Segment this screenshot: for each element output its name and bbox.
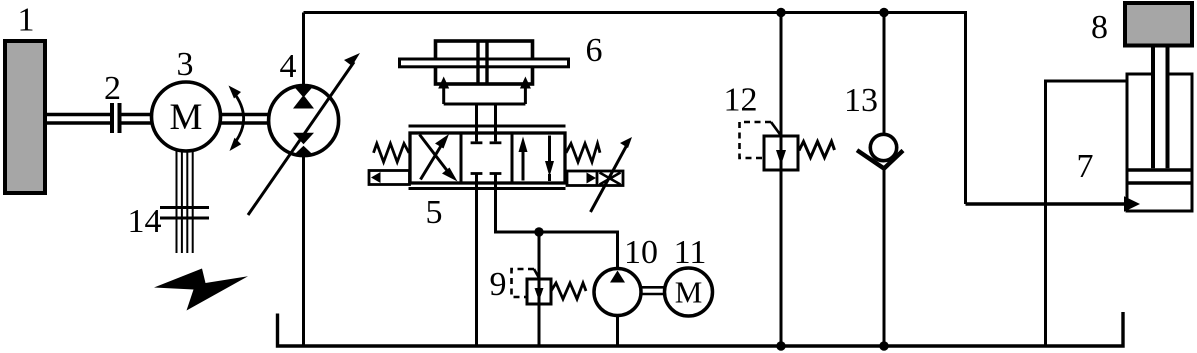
valve 5 body: [410, 133, 565, 183]
feed line to work cylinder: [966, 202, 1126, 206]
relief valve 12 spring: [799, 142, 835, 158]
svg-text:8: 8: [1091, 9, 1108, 46]
flow arrows into cylinder 6: [438, 77, 531, 105]
relief valve 12 box: [764, 136, 798, 170]
valve 5 left solenoid box: [369, 171, 410, 185]
valve 5 middle square blocked ports: [471, 143, 502, 174]
svg-text:M: M: [170, 97, 203, 138]
svg-text:10: 10: [624, 234, 658, 271]
pump 4 line to tank rail: [302, 156, 305, 346]
relief valve 12 line: [780, 13, 783, 347]
shaft from coupling 2 to motor 3: [122, 115, 153, 124]
cylinder 6 body: [436, 41, 533, 84]
valve 5 right spring: [566, 144, 600, 163]
bidirectional rotation arrow: [229, 86, 244, 152]
shaft from motor 3 to pump 4: [221, 115, 270, 124]
relief valve 9 line: [538, 232, 541, 346]
pump 4 variable arrow: [248, 53, 360, 215]
relief valve 9 spring: [551, 283, 586, 299]
variable pump 4 circle: [269, 86, 339, 156]
junction node: [534, 227, 543, 236]
shaft from block 1 to coupling 2: [47, 115, 110, 124]
work cylinder piston: [1127, 170, 1192, 183]
svg-text:3: 3: [177, 46, 194, 83]
bottom tank rail: [278, 312, 1124, 346]
valve 5 proportional upper line: [409, 125, 566, 128]
valve 5 right port line to pump 10: [496, 174, 618, 269]
svg-text:9: 9: [490, 266, 507, 303]
valve 5 proportional lower line: [409, 187, 566, 190]
work cylinder rod: [1153, 47, 1168, 168]
electric motor 3 circle: [152, 82, 221, 151]
lightning bolt: [154, 269, 248, 311]
svg-text:4: 4: [280, 48, 297, 85]
top pressure rail: [304, 13, 966, 205]
coupling C2 plates: [112, 103, 120, 133]
relief valve 12 pilot dashed: [740, 122, 772, 158]
supply plates 14: [160, 208, 209, 219]
svg-text:13: 13: [844, 82, 878, 119]
relief valve 9 pilot dashed: [512, 269, 535, 297]
pump 4 suction line to top rail: [302, 13, 305, 86]
cylinder 6 piston: [478, 41, 487, 84]
junction dots valve 12: [776, 8, 785, 17]
electric supply lines 14: [177, 151, 193, 253]
svg-text:7: 7: [1077, 148, 1094, 185]
svg-text:14: 14: [128, 203, 162, 240]
shaft pump10 - motor11: [641, 287, 665, 294]
svg-text:5: 5: [426, 194, 443, 231]
machine bed block 1: [5, 41, 45, 193]
svg-text:2: 2: [104, 70, 121, 107]
svg-text:1: 1: [18, 2, 35, 39]
check valve 13: [870, 134, 896, 160]
relief valve 9 box: [527, 279, 551, 304]
valve 5 left square crossed arrows: [420, 134, 458, 182]
check valve 13 line top: [883, 13, 886, 135]
connector line under cylinder: [444, 103, 526, 106]
svg-text:11: 11: [674, 234, 707, 271]
valve 5 left spring: [374, 144, 410, 163]
valve 5 right solenoid box: [567, 171, 623, 186]
cylinder 6 double rod: [400, 59, 569, 67]
electric motor 11: [665, 268, 713, 316]
pump 10: [594, 269, 641, 316]
junction dots valve 13: [879, 8, 888, 17]
port lines down to valve: [475, 104, 478, 141]
load block 8: [1125, 3, 1192, 46]
work cylinder walls: [1126, 74, 1129, 211]
work table 7: [1046, 81, 1127, 346]
svg-text:M: M: [675, 275, 703, 310]
pump 4 top triangles: [293, 86, 314, 109]
svg-text:12: 12: [724, 82, 758, 119]
pump 4 bottom triangles: [293, 133, 314, 156]
valve 5 proportional diagonal arrow: [591, 137, 633, 212]
valve 5 right square arrows: [519, 136, 555, 182]
valve 5 left port line to tank: [475, 174, 478, 346]
svg-text:6: 6: [586, 32, 603, 69]
